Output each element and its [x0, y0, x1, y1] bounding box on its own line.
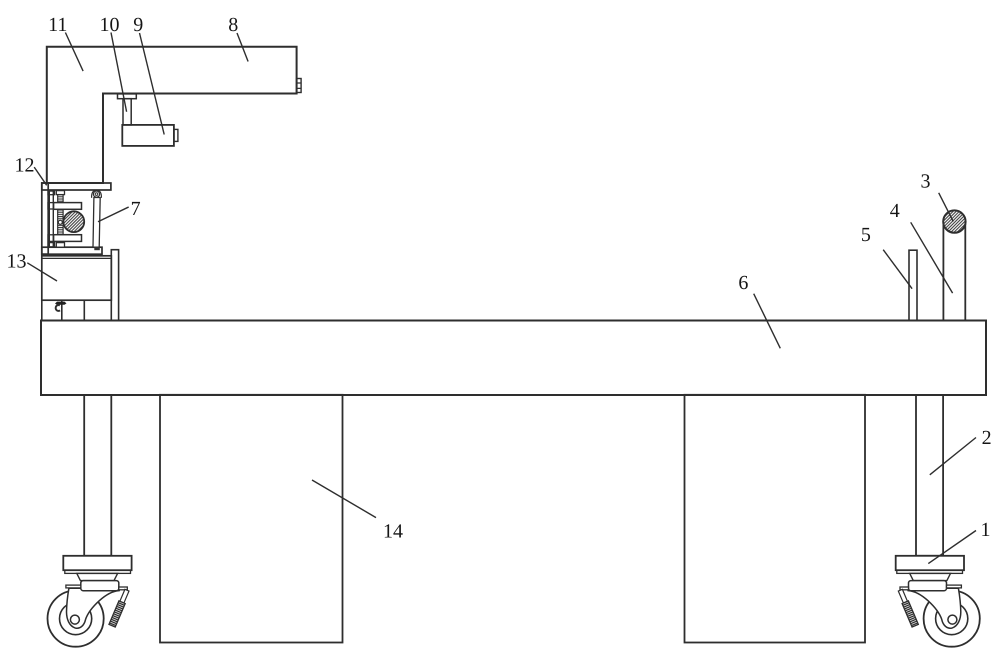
svg-text:1: 1	[981, 519, 991, 541]
svg-text:6: 6	[738, 272, 748, 294]
svg-text:14: 14	[383, 521, 403, 543]
svg-text:5: 5	[861, 224, 871, 246]
svg-text:8: 8	[228, 14, 238, 36]
svg-text:2: 2	[982, 427, 992, 449]
svg-text:10: 10	[100, 14, 120, 36]
svg-text:9: 9	[133, 14, 143, 36]
svg-text:7: 7	[131, 198, 141, 220]
svg-text:11: 11	[48, 14, 67, 36]
svg-text:4: 4	[890, 200, 900, 222]
svg-text:13: 13	[7, 250, 27, 272]
svg-text:12: 12	[15, 155, 35, 177]
svg-text:3: 3	[921, 171, 931, 193]
